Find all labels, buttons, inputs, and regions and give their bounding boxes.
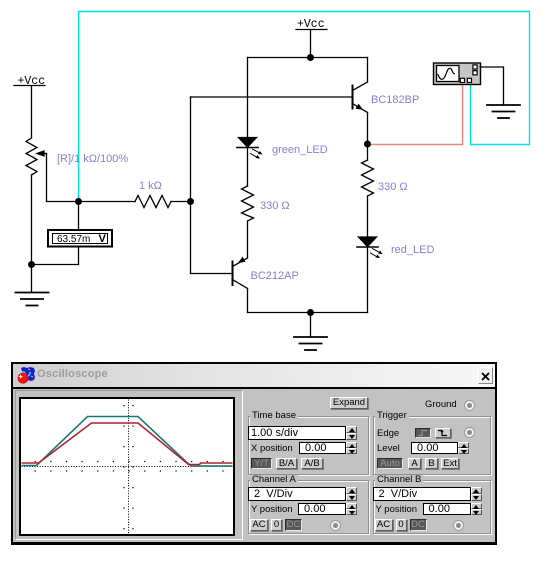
- graticule x axis: [21, 465, 232, 467]
- wire pot bottom to ground rail: [31, 175, 33, 292]
- channel A AC button: [250, 519, 268, 531]
- ground scope: [487, 105, 520, 118]
- trigger group: [373, 416, 492, 475]
- svg-text:red_LED: red_LED: [391, 244, 434, 256]
- A/B button: [301, 458, 323, 469]
- ground center: [294, 337, 327, 350]
- resistor R4 330 Ohm: [362, 160, 374, 196]
- channel B y position label: [376, 505, 418, 515]
- x position label: [251, 444, 293, 454]
- channel A radio: [330, 520, 341, 531]
- wire bottom rail: [248, 312, 368, 314]
- wire rail to Q1 collector: [367, 58, 369, 83]
- channel B AC button: [375, 519, 393, 531]
- channel B 0 button: [396, 519, 407, 531]
- power +Vcc left: [14, 75, 45, 88]
- transistor Q2 BC212AP: [233, 257, 248, 289]
- node N3 junction: [28, 261, 35, 268]
- wire LED to bottom rail: [367, 247, 369, 313]
- LED D1 green_LED: [237, 138, 263, 159]
- instrument oscilloscope icon XSC1: [434, 63, 481, 85]
- resistor R3 330 Ohm: [242, 186, 254, 221]
- trigger radio: [464, 427, 475, 438]
- trigger level label: [377, 444, 400, 454]
- wire Q2 collector down to bottom rail: [247, 289, 249, 313]
- svg-text:BC182BP: BC182BP: [371, 94, 419, 106]
- wire LED to resistor R3: [247, 148, 249, 187]
- trigger edge label: [377, 429, 399, 439]
- channel B group: [373, 480, 492, 534]
- wire collector rail: [248, 57, 368, 59]
- resistor R2 1 kOhm: [135, 196, 171, 208]
- svg-text:330 Ω: 330 Ω: [378, 181, 408, 193]
- graticule ticks: [18, 405, 233, 534]
- wire wiper horizontal to resistor: [47, 201, 136, 203]
- svg-text:V: V: [99, 233, 107, 245]
- ground radio: [464, 400, 475, 411]
- wire rail to green LED: [247, 58, 249, 138]
- wire scope ground terminal: [480, 67, 504, 105]
- wire Q2 base: [191, 273, 233, 275]
- ground label: [425, 400, 457, 410]
- wire red scope A input: [368, 84, 463, 145]
- channel B DC button pressed: [410, 519, 427, 531]
- node N1 junction: [75, 198, 82, 205]
- svg-text:63.57m: 63.57m: [57, 234, 90, 245]
- trigger auto button pressed: [377, 458, 403, 469]
- wire resistor to red LED: [367, 196, 369, 237]
- trigger edge falling button: [435, 428, 451, 438]
- wire Q1 emitter to node N6: [367, 113, 369, 145]
- channel A 0 button: [271, 519, 282, 531]
- channel B radio: [453, 520, 464, 531]
- transistor Q1 BC182BP: [353, 82, 368, 113]
- scope waveform svg: [21, 399, 233, 534]
- trigger Ext button: [441, 458, 459, 469]
- wire Q1 base: [191, 96, 353, 98]
- wire node N2 vertical to both bases: [190, 97, 193, 274]
- channel B scale field: [373, 487, 471, 501]
- svg-text:BC212AP: BC212AP: [251, 270, 299, 282]
- ground left: [16, 293, 49, 306]
- trigger B button: [425, 458, 438, 469]
- wire resistor to Q2 emitter: [247, 221, 249, 258]
- svg-text:[R]/1 kΩ/100%: [R]/1 kΩ/100%: [57, 153, 128, 165]
- x position field: [299, 442, 346, 454]
- wire voltmeter top: [78, 202, 80, 231]
- wire rail to ground center: [310, 313, 312, 338]
- node N6 junction: [364, 141, 371, 148]
- expand button: [330, 397, 368, 409]
- wire resistor to node N2: [171, 201, 191, 203]
- node N2 junction: [187, 198, 194, 205]
- scope graph panel: [15, 390, 243, 540]
- trigger A button: [408, 458, 421, 469]
- wire voltmeter bottom to ground rail: [31, 247, 79, 265]
- graticule y axis: [127, 399, 129, 533]
- wire node to resistor R4: [367, 144, 369, 160]
- channel A y position field: [298, 503, 346, 515]
- channel B y position field: [423, 503, 471, 515]
- voltmeter M1: [48, 230, 112, 247]
- power +Vcc center: [296, 18, 327, 31]
- trigger edge rising button pressed: [415, 428, 431, 438]
- node N4 junction: [307, 54, 314, 61]
- channel A scale field: [248, 487, 346, 501]
- waveform channel A red: [21, 423, 232, 465]
- channel A group: [248, 480, 369, 534]
- svg-text:1 kΩ: 1 kΩ: [139, 180, 162, 192]
- wire Vcc to potentiometer: [31, 86, 33, 138]
- channel A DC button pressed: [285, 519, 302, 531]
- B/A button: [276, 458, 297, 469]
- time base group: [248, 416, 369, 475]
- channel A y position label: [251, 505, 293, 515]
- svg-text:330 Ω: 330 Ω: [260, 200, 290, 212]
- potentiometer R1 1k 100%: [26, 138, 47, 202]
- oscilloscope window: [11, 362, 497, 545]
- svg-text:green_LED: green_LED: [272, 144, 328, 156]
- node N5 junction: [307, 309, 314, 316]
- waveform channel B teal: [21, 416, 232, 466]
- Y/T button pressed: [251, 458, 272, 469]
- wire Vcc center to rail: [310, 30, 312, 58]
- scope screen: [19, 397, 235, 536]
- time base field: [248, 426, 346, 440]
- wire cyan scope B input loop: [79, 12, 530, 202]
- trigger level field: [411, 442, 458, 454]
- LED D2 red_LED: [357, 237, 383, 258]
